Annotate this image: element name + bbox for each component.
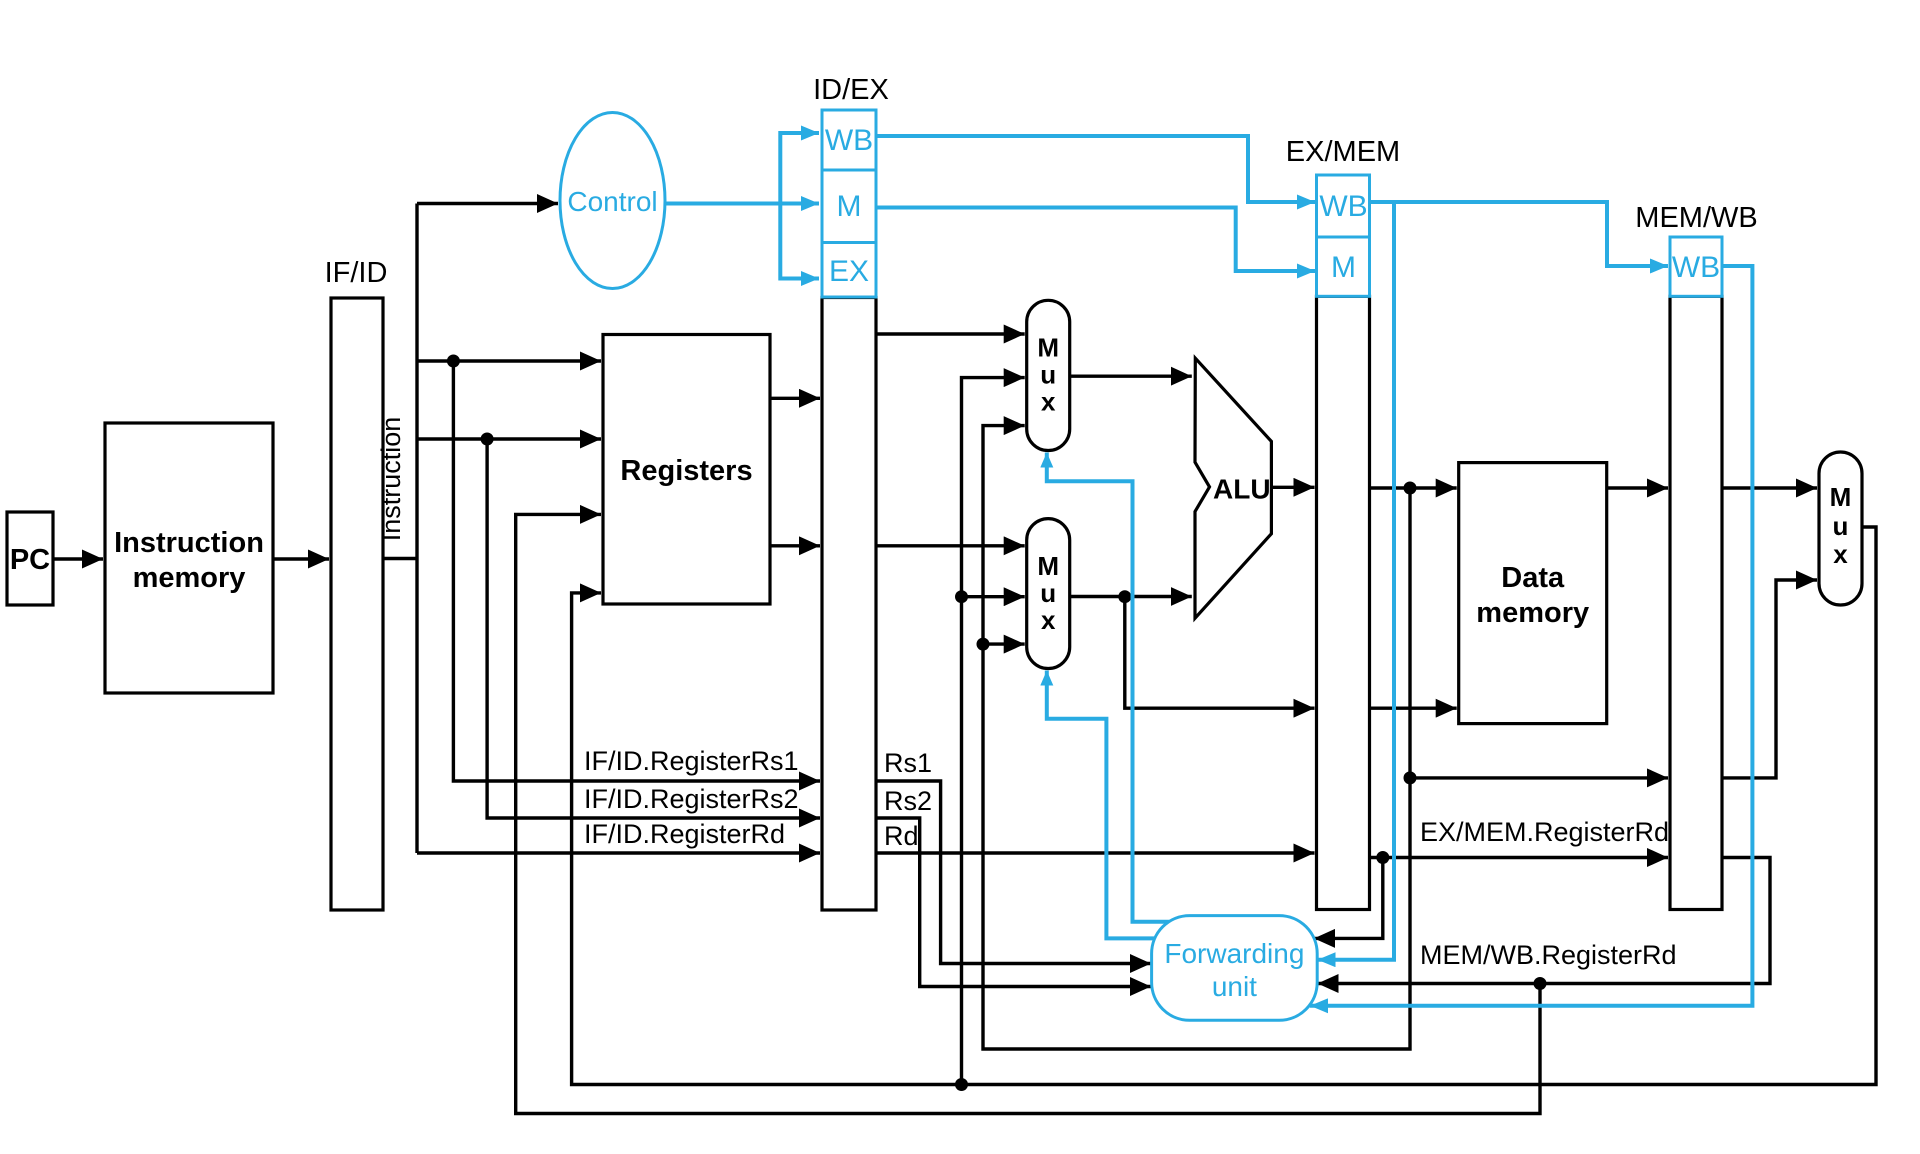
svg-text:EX: EX	[829, 255, 869, 288]
wire ForwardA from Forwarding unit to Mux A	[1047, 453, 1170, 922]
svg-text:unit: unit	[1212, 971, 1257, 1002]
svg-text:M: M	[1037, 333, 1059, 363]
svg-text:WB: WB	[825, 124, 873, 157]
Registers box	[603, 335, 770, 605]
EX/MEM pipeline register	[1317, 296, 1370, 909]
wire MEM/WB read data to Mux C	[1722, 486, 1817, 489]
MEM/WB WB box	[1670, 237, 1722, 296]
svg-text:M: M	[1331, 251, 1356, 284]
svg-text:memory: memory	[1476, 597, 1589, 629]
wire Data memory read data to MEM/WB	[1607, 486, 1668, 489]
svg-text:memory: memory	[133, 562, 246, 594]
wire EX/MEM ALU result to Data memory address	[1370, 486, 1457, 489]
wire branch to Mux B input 2	[962, 595, 1025, 598]
EX/MEM WB box	[1317, 175, 1370, 237]
wire ID/EX to Mux A input 1	[876, 332, 1025, 335]
Instruction memory box	[105, 423, 273, 693]
Forwarding unit box	[1152, 916, 1318, 1021]
svg-text:MEM/WB: MEM/WB	[1635, 202, 1757, 234]
svg-text:x: x	[1041, 605, 1056, 635]
svg-text:Registers: Registers	[620, 455, 752, 487]
svg-text:WB: WB	[1319, 190, 1367, 223]
wire Mux C output writeback to Registers write data	[572, 527, 1876, 1085]
wire Mux B output to ALU	[1070, 595, 1192, 598]
mux C (writeback)	[1819, 452, 1862, 605]
wire MEM/WB RegWrite to Forwarding unit	[1310, 266, 1752, 1006]
wire EX/MEM WB to MEM/WB WB	[1370, 202, 1668, 266]
svg-text:IF/ID.RegisterRs1: IF/ID.RegisterRs1	[584, 746, 799, 776]
ID/EX M box	[822, 170, 876, 243]
wire Rs2 to Forwarding unit	[876, 818, 1151, 987]
wire Instruction memory to IF/ID	[273, 557, 329, 560]
wire Read data 2	[770, 544, 820, 547]
svg-text:u: u	[1040, 360, 1056, 390]
wire to Control	[417, 202, 558, 205]
wire Control output to ID/EX M	[664, 202, 819, 206]
svg-text:EX/MEM: EX/MEM	[1286, 136, 1400, 168]
ALU shape	[1195, 358, 1271, 618]
node junction store data	[1118, 590, 1131, 603]
wire EX/MEM.RegisterRd to Forwarding unit	[1314, 858, 1383, 939]
wire Instruction out of IF/ID	[383, 557, 417, 560]
node junction mux B input 2	[955, 590, 968, 603]
svg-text:ALU: ALU	[1213, 474, 1271, 505]
node junction mux B input 3	[977, 638, 990, 651]
ID/EX WB box	[822, 110, 876, 170]
wire ID/EX M to EX/MEM M	[876, 208, 1315, 272]
svg-text:IF/ID.RegisterRd: IF/ID.RegisterRd	[584, 819, 785, 849]
ID/EX pipeline register	[822, 298, 876, 911]
node junction Rs1	[447, 355, 460, 368]
svg-text:IF/ID: IF/ID	[325, 257, 388, 289]
wire control trunk to ID/EX EX	[780, 204, 819, 279]
wire Rd to EX/MEM	[876, 851, 1315, 854]
svg-text:Forwarding: Forwarding	[1164, 938, 1304, 969]
svg-text:ID/EX: ID/EX	[813, 74, 889, 106]
wire IF/ID.RegisterRs2 to ID/EX	[487, 439, 820, 818]
ID/EX EX box	[822, 243, 876, 298]
EX/MEM M box	[1317, 237, 1370, 296]
wire ID/EX to Mux B input 1	[876, 544, 1025, 547]
svg-text:EX/MEM.RegisterRd: EX/MEM.RegisterRd	[1420, 817, 1669, 847]
svg-text:Instruction: Instruction	[114, 527, 264, 559]
node junction ALU result to MEM/WB	[1404, 771, 1417, 784]
wire ALU output to EX/MEM	[1271, 486, 1314, 489]
svg-text:Control: Control	[567, 186, 657, 217]
PC box	[7, 512, 53, 605]
mux B (ALU operand 2)	[1027, 519, 1070, 669]
svg-text:WB: WB	[1672, 251, 1720, 284]
svg-text:Rd: Rd	[884, 821, 919, 851]
wire ALU result branch to MEM/WB	[1410, 776, 1668, 779]
wire EX/MEM store data to Data memory	[1370, 707, 1457, 710]
Control ellipse	[560, 113, 665, 289]
svg-text:IF/ID.RegisterRs2: IF/ID.RegisterRs2	[584, 784, 799, 814]
mux A (ALU operand 1)	[1027, 300, 1070, 450]
wire Read register 2	[417, 437, 601, 440]
node junction Rs2	[481, 433, 494, 446]
node junction ALU result	[1404, 482, 1417, 495]
IF/ID pipeline register	[331, 298, 383, 910]
svg-text:MEM/WB.RegisterRd: MEM/WB.RegisterRd	[1420, 940, 1677, 970]
wire ID/EX WB to EX/MEM WB	[876, 136, 1315, 202]
wire PC to Instruction memory	[53, 557, 103, 560]
svg-text:M: M	[1830, 482, 1852, 512]
wire branch to Mux B input 3	[983, 642, 1025, 645]
node junction EX/MEM.RegisterRd	[1376, 851, 1389, 864]
svg-text:M: M	[837, 190, 862, 223]
wire MEM/WB.RegisterRd to Registers write register	[516, 514, 1540, 1113]
wire ALU result forward to Mux A input 3	[983, 426, 1410, 1049]
node junction MEM/WB.RegisterRd	[1534, 977, 1547, 990]
wire writeback value vertical to Mux A input 2	[962, 378, 1025, 1085]
svg-text:u: u	[1833, 511, 1849, 541]
svg-text:u: u	[1040, 578, 1056, 608]
wire IF/ID.RegisterRd to ID/EX	[417, 851, 820, 854]
svg-text:Instruction: Instruction	[376, 417, 406, 542]
wire EX/MEM RegWrite to Forwarding unit	[1318, 202, 1395, 960]
wire store data to EX/MEM	[1125, 597, 1315, 709]
wire instruction trunk vertical	[415, 204, 418, 854]
wire Rs1 to Forwarding unit	[876, 781, 1151, 964]
wire EX/MEM.RegisterRd to MEM/WB	[1370, 856, 1669, 859]
MEM/WB pipeline register	[1670, 296, 1722, 909]
svg-text:x: x	[1041, 387, 1056, 417]
wire Read register 1	[417, 359, 601, 362]
wire control trunk to ID/EX WB	[780, 133, 819, 204]
svg-text:Rs1: Rs1	[884, 748, 932, 778]
node junction writeback value	[955, 1078, 968, 1091]
wire MEM/WB.RegisterRd to Forwarding unit	[1318, 858, 1771, 984]
svg-text:M: M	[1037, 551, 1059, 581]
wire MEM/WB ALU result to Mux C	[1722, 580, 1817, 778]
svg-text:Data: Data	[1501, 562, 1565, 594]
wire ForwardB from Forwarding unit to Mux B	[1047, 671, 1155, 939]
wire IF/ID.RegisterRs1 to ID/EX	[453, 361, 820, 781]
wire Mux A output to ALU	[1070, 375, 1192, 378]
svg-text:x: x	[1833, 539, 1848, 569]
Data memory box	[1459, 463, 1607, 724]
svg-text:PC: PC	[10, 544, 50, 576]
svg-text:Rs2: Rs2	[884, 786, 932, 816]
wire Read data 1	[770, 397, 820, 400]
